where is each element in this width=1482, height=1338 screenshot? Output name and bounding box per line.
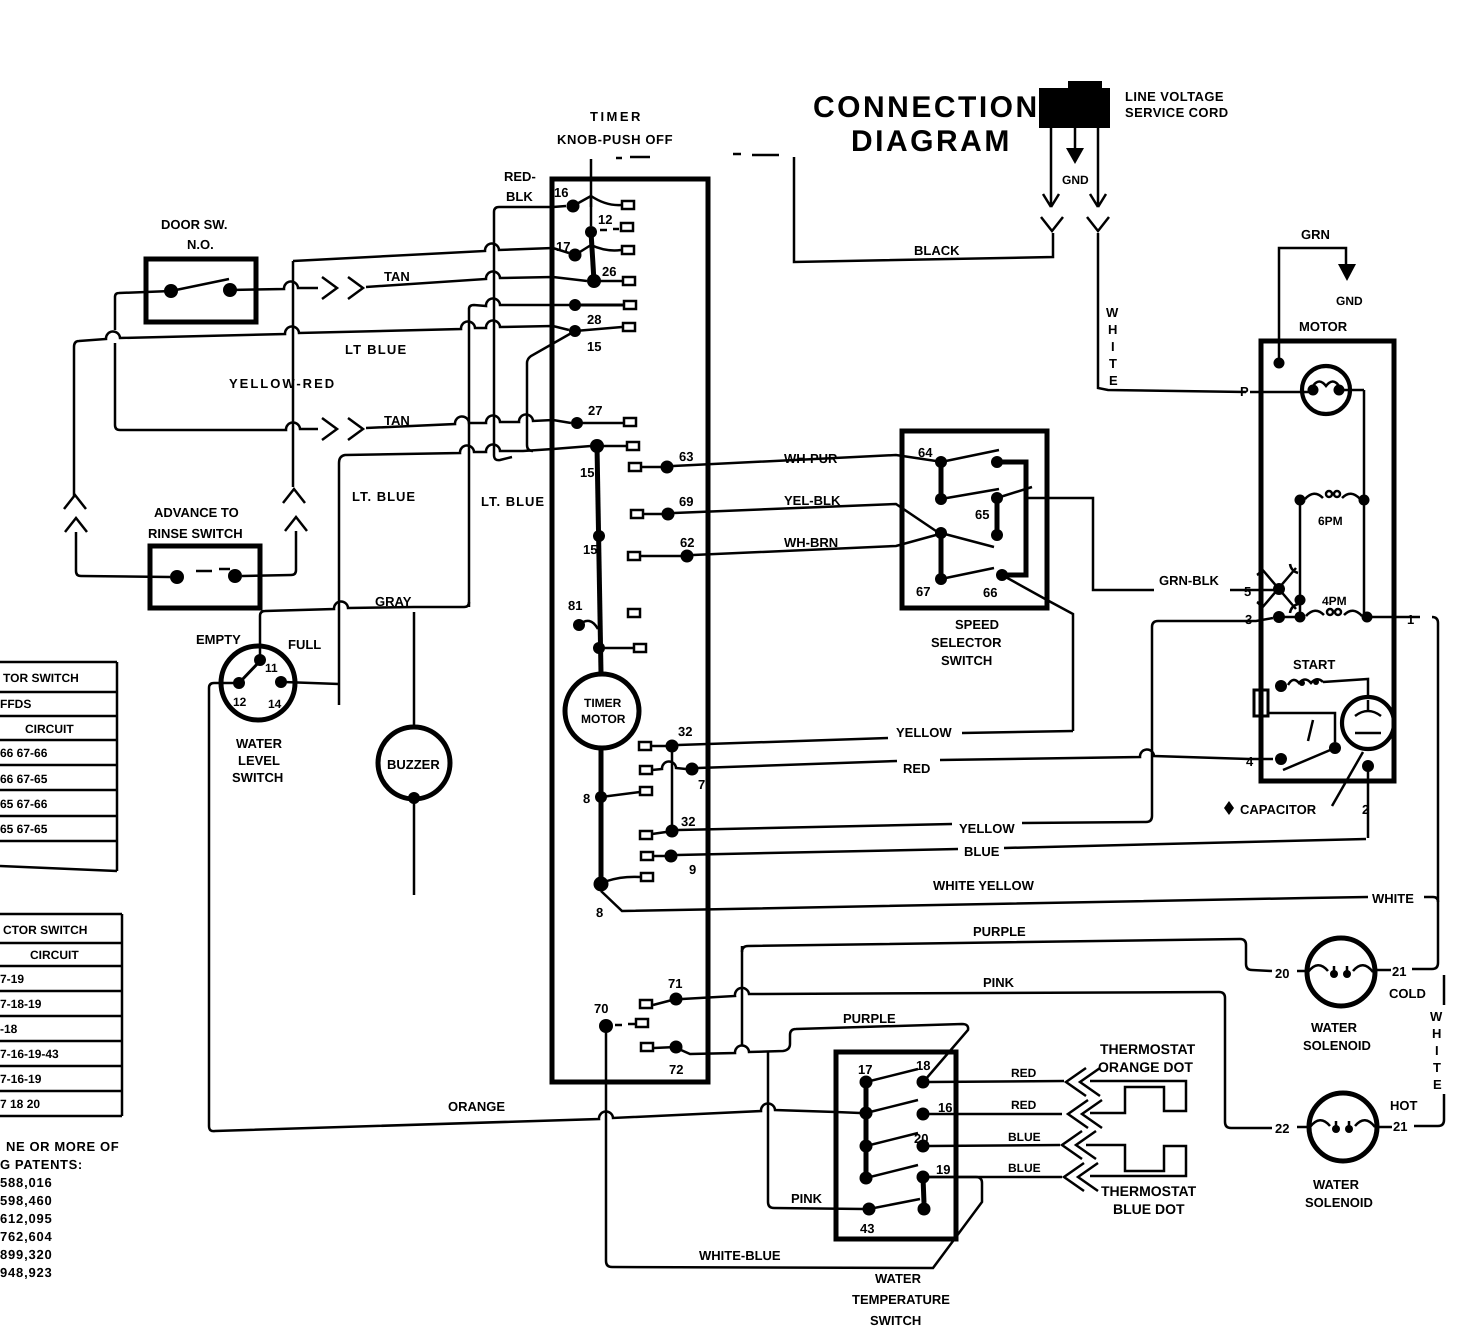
temp switch pin 20: [914, 1131, 930, 1153]
timer pin 32: [651, 724, 692, 753]
rinse switch contacts: [170, 569, 242, 584]
svg-text:17: 17: [858, 1062, 872, 1077]
svg-text:HOT: HOT: [1390, 1098, 1418, 1113]
timer pin 17: [556, 239, 621, 262]
svg-text:WHITE: WHITE: [1372, 891, 1414, 906]
timer lug 70: [636, 1019, 648, 1027]
svg-text:H: H: [1108, 322, 1117, 337]
temp switch pin 17: [858, 1062, 918, 1089]
wire YEL-BLK (timer 69 to speed selector): [674, 493, 936, 531]
timer pin 8: [583, 791, 640, 806]
timer pin 15c: [583, 530, 605, 557]
ground symbol GND (cord): [1062, 128, 1089, 187]
svg-text:66 67-65: 66 67-65: [0, 772, 48, 786]
wire PINK 2 (to temp switch 43): [768, 1052, 864, 1209]
svg-text:BUZZER: BUZZER: [387, 757, 440, 772]
svg-text:PINK: PINK: [983, 975, 1015, 990]
svg-text:63: 63: [679, 449, 693, 464]
wire RED-BLK riser: [494, 169, 566, 460]
wire BLUE thermostat bottom: [929, 1161, 1098, 1191]
svg-text:21: 21: [1392, 964, 1406, 979]
cord prong arrow right: [1087, 128, 1109, 231]
svg-text:ADVANCE TO: ADVANCE TO: [154, 505, 239, 520]
svg-text:1: 1: [1407, 612, 1414, 627]
wire TAN 1 (door switch to timer 26): [230, 269, 587, 299]
ground symbol GND (motor): [1336, 264, 1363, 308]
timer lug 28: [623, 323, 635, 331]
cord prong arrow left: [1041, 128, 1063, 231]
timer pin 32b: [652, 814, 695, 838]
svg-text:12: 12: [598, 212, 612, 227]
svg-text:SERVICE CORD: SERVICE CORD: [1125, 105, 1229, 120]
timer pin 70: [594, 1001, 635, 1033]
svg-text:BLUE DOT: BLUE DOT: [1113, 1201, 1185, 1217]
svg-text:18: 18: [916, 1058, 930, 1073]
svg-text:E: E: [1109, 373, 1118, 388]
water solenoid cold: [1275, 938, 1426, 1053]
svg-text:2: 2: [1362, 802, 1369, 817]
wire 6PM to centrifugal switch: [1299, 500, 1302, 612]
svg-text:FFDS: FFDS: [0, 697, 31, 711]
wire water level 14 stub: [284, 682, 339, 684]
svg-text:70: 70: [594, 1001, 608, 1016]
svg-text:SWITCH: SWITCH: [870, 1313, 921, 1328]
svg-text:7 18 20: 7 18 20: [0, 1097, 40, 1111]
svg-text:TEMPERATURE: TEMPERATURE: [852, 1292, 950, 1307]
temp switch left contacts: [860, 1100, 919, 1185]
timer vertical 32-32: [671, 746, 674, 831]
svg-text:E: E: [1433, 1077, 1442, 1092]
timer pin 72: [654, 1041, 683, 1078]
wire WHITE (cord to motor P): [1098, 233, 1246, 392]
temp switch pin 18: [916, 1058, 930, 1089]
svg-text:YELLOW-RED: YELLOW-RED: [229, 376, 336, 391]
timer lug 15b: [627, 442, 639, 450]
svg-text:RED: RED: [1011, 1066, 1037, 1080]
timer lug 69: [631, 510, 643, 518]
motor 4PM winding row pin 3: [1245, 609, 1394, 627]
svg-text:LT. BLUE: LT. BLUE: [352, 489, 416, 504]
timer lug 81: [628, 609, 640, 617]
buzzer: [378, 612, 450, 895]
svg-text:7-19: 7-19: [0, 972, 24, 986]
speed selector pin 66: [983, 569, 1008, 600]
wire GRN-BLK (speed selector to motor 5): [1026, 498, 1274, 590]
svg-text:8: 8: [583, 791, 590, 806]
timer lug 32b: [640, 831, 652, 839]
timer pin 63: [641, 449, 693, 474]
svg-text:TAN: TAN: [384, 269, 410, 284]
svg-text:15: 15: [583, 542, 597, 557]
svg-text:COLD: COLD: [1389, 986, 1426, 1001]
timer pin 81: [568, 598, 598, 631]
timer lug 63: [629, 463, 641, 471]
svg-text:TIMER: TIMER: [584, 696, 622, 710]
wire BLUE (timer 9 to capacitor 2): [677, 839, 1366, 859]
timer lug 26: [623, 277, 635, 285]
temp switch left bar: [864, 1082, 869, 1178]
svg-text:7-16-19-43: 7-16-19-43: [0, 1047, 59, 1061]
svg-text:3: 3: [1245, 612, 1252, 627]
timer lug 71: [640, 1000, 652, 1008]
timer pin 28: [569, 312, 622, 337]
svg-text:65 67-66: 65 67-66: [0, 797, 48, 811]
svg-text:G PATENTS:: G PATENTS:: [0, 1157, 83, 1172]
title CONNECTION DIAGRAM: [813, 91, 1040, 158]
svg-text:62: 62: [680, 535, 694, 550]
node V1 row 305 corner: [469, 298, 570, 309]
svg-text:21: 21: [1393, 1119, 1407, 1134]
svg-text:66 67-66: 66 67-66: [0, 746, 48, 760]
svg-text:RINSE SWITCH: RINSE SWITCH: [148, 526, 243, 541]
wire PINK (timer 71 to hot solenoid 22): [682, 975, 1272, 1128]
timer pin 69: [643, 494, 693, 521]
svg-text:SWITCH: SWITCH: [232, 770, 283, 785]
svg-text:9: 9: [689, 862, 696, 877]
timer lug 7: [640, 766, 652, 774]
svg-text:NE OR MORE OF: NE OR MORE OF: [6, 1139, 119, 1154]
wire WH-BRN (timer 62 to speed selector): [693, 535, 936, 555]
speed selector pin 64: [918, 445, 999, 468]
svg-text:THERMOSTAT: THERMOSTAT: [1100, 1041, 1196, 1057]
svg-text:SOLENOID: SOLENOID: [1305, 1195, 1373, 1210]
timer bar 12-26: [591, 232, 594, 281]
svg-text:19: 19: [936, 1162, 950, 1177]
svg-text:WH-PUR: WH-PUR: [784, 451, 838, 466]
svg-text:GRAY: GRAY: [375, 594, 412, 609]
timer lug 17: [622, 246, 634, 254]
svg-text:69: 69: [679, 494, 693, 509]
svg-text:26: 26: [602, 264, 616, 279]
wire RED (timer 7 to motor 4): [698, 749, 1249, 776]
timer lug 27: [624, 418, 636, 426]
wire WH-PUR (timer 63 to speed selector 64): [673, 451, 936, 466]
patents note: [0, 1139, 119, 1280]
svg-text:CIRCUIT: CIRCUIT: [25, 722, 74, 736]
svg-text:27: 27: [588, 403, 602, 418]
timer inner bar to motor: [597, 446, 601, 673]
svg-text:YELLOW: YELLOW: [959, 821, 1015, 836]
timer pin 12: [585, 196, 619, 238]
timer node 8 junction: [594, 877, 609, 921]
wire RED thermostat top: [929, 1066, 1186, 1113]
table selector switch 2: [0, 914, 122, 1116]
svg-text:4: 4: [1246, 754, 1254, 769]
svg-text:12: 12: [233, 695, 247, 709]
svg-text:N.O.: N.O.: [187, 237, 214, 252]
svg-text:PINK: PINK: [791, 1191, 823, 1206]
door switch box: [146, 217, 256, 322]
svg-text:65 67-65: 65 67-65: [0, 822, 48, 836]
wire white column between solenoids: [1414, 975, 1444, 1126]
timer lug 16: [622, 201, 634, 209]
svg-text:MOTOR: MOTOR: [581, 712, 626, 726]
speed selector pin 67: [916, 527, 994, 599]
wire PURPLE 2 (timer 72 to temp switch 18): [681, 1011, 968, 1080]
svg-text:WATER: WATER: [875, 1271, 922, 1286]
motor pin 1: [1396, 612, 1438, 897]
svg-text:81: 81: [568, 598, 582, 613]
capacitor C1: [1342, 697, 1394, 749]
svg-text:LT BLUE: LT BLUE: [345, 342, 407, 357]
svg-text:LT. BLUE: LT. BLUE: [481, 494, 545, 509]
svg-text:MOTOR: MOTOR: [1299, 319, 1348, 334]
svg-text:START: START: [1293, 657, 1335, 672]
timer pin 16: [554, 185, 621, 213]
wire WHITE YELLOW (timer 8 to white column): [601, 878, 1438, 969]
svg-text:22: 22: [1275, 1121, 1289, 1136]
svg-text:7: 7: [698, 777, 705, 792]
svg-text:7-18-19: 7-18-19: [0, 997, 42, 1011]
motor pin P: [1240, 384, 1312, 399]
wire RED thermostat bottom: [929, 1098, 1102, 1128]
svg-text:THERMOSTAT: THERMOSTAT: [1101, 1183, 1197, 1199]
svg-text:BLUE: BLUE: [1008, 1130, 1041, 1144]
wire V339 (to water level 14): [338, 463, 341, 705]
wire door switch left to TAN 2: [115, 291, 318, 430]
svg-text:598,460: 598,460: [0, 1193, 53, 1208]
water temperature switch box: [836, 1052, 956, 1328]
timer pin 7: [652, 761, 705, 792]
timer bar below motor: [599, 748, 604, 884]
timer pin 9: [653, 850, 696, 878]
svg-text:762,604: 762,604: [0, 1229, 53, 1244]
timer pin 27: [571, 403, 623, 429]
svg-text:GRN: GRN: [1301, 227, 1330, 242]
motor M1 box: [1261, 319, 1394, 781]
speed selector bar 64: [939, 462, 944, 499]
motor 6PM winding: [1295, 491, 1370, 528]
svg-text:WHITE YELLOW: WHITE YELLOW: [933, 878, 1035, 893]
label thermostat orange dot: [1098, 1041, 1196, 1075]
wire water level 12 to left riser: [209, 683, 239, 1126]
svg-text:LINE VOLTAGE: LINE VOLTAGE: [1125, 89, 1224, 104]
wire LT BLUE 1 (to timer 28a row): [74, 320, 569, 357]
svg-text:WATER: WATER: [236, 736, 283, 751]
svg-text:WHITE-BLUE: WHITE-BLUE: [699, 1248, 781, 1263]
svg-text:TOR SWITCH: TOR SWITCH: [3, 671, 79, 685]
svg-text:15: 15: [580, 465, 594, 480]
svg-text:BLUE: BLUE: [1008, 1161, 1041, 1175]
svg-text:TIMER: TIMER: [590, 109, 643, 124]
node motor top-left: [1274, 358, 1285, 369]
svg-text:YELLOW: YELLOW: [896, 725, 952, 740]
svg-text:YEL-BLK: YEL-BLK: [784, 493, 841, 508]
svg-text:ORANGE: ORANGE: [448, 1099, 505, 1114]
svg-text:BLACK: BLACK: [914, 243, 960, 258]
svg-text:DIAGRAM: DIAGRAM: [851, 125, 1012, 158]
wire TAN 2 (to timer 27): [322, 413, 571, 440]
timer lug 12: [621, 223, 633, 231]
svg-text:GRN-BLK: GRN-BLK: [1159, 573, 1220, 588]
svg-text:I: I: [1435, 1043, 1439, 1058]
svg-text:T: T: [1109, 356, 1117, 371]
svg-text:LEVEL: LEVEL: [238, 753, 280, 768]
timer box: [552, 109, 708, 1082]
speed selector pin 65: [975, 456, 1032, 541]
timer motor: [565, 674, 639, 748]
advance to rinse switch box: [148, 505, 260, 608]
timer lug 8: [640, 787, 652, 795]
svg-text:32: 32: [678, 724, 692, 739]
timer lug 9: [641, 852, 653, 860]
wire PURPLE (to cold solenoid 20): [742, 924, 1272, 1045]
svg-text:DOOR SW.: DOOR SW.: [161, 217, 227, 232]
svg-text:I: I: [1111, 339, 1115, 354]
motor start winding: [1275, 657, 1368, 697]
svg-text:588,016: 588,016: [0, 1175, 53, 1190]
svg-text:PURPLE: PURPLE: [843, 1011, 896, 1026]
motor start switch: [1246, 713, 1341, 770]
wire YELLOW (timer 32 to speed selector 66): [678, 725, 1073, 745]
wire V1 vertical (gray riser): [468, 309, 471, 607]
svg-text:14: 14: [268, 697, 282, 711]
svg-text:5: 5: [1244, 584, 1251, 599]
svg-text:20: 20: [1275, 966, 1289, 981]
wire 66 to yellow column: [1002, 575, 1073, 731]
svg-text:RED: RED: [903, 761, 930, 776]
svg-text:16: 16: [554, 185, 568, 200]
timer lug 28a: [624, 301, 636, 309]
svg-text:WATER: WATER: [1311, 1020, 1358, 1035]
wire GRN (motor to ground): [1279, 227, 1346, 363]
water level switch: [196, 632, 321, 785]
svg-text:32: 32: [681, 814, 695, 829]
svg-text:EMPTY: EMPTY: [196, 632, 241, 647]
svg-text:RED-: RED-: [504, 169, 536, 184]
svg-text:67: 67: [916, 584, 930, 599]
motor centrifugal switch pin 5: [1244, 564, 1347, 613]
wire YELLOW 2 (timer 32b to motor 3): [678, 618, 1273, 836]
svg-text:GND: GND: [1336, 294, 1363, 308]
svg-text:SPEED: SPEED: [955, 617, 999, 632]
timer pin 62: [640, 535, 694, 563]
timer lug 72: [641, 1043, 653, 1051]
timer lug 648: [634, 644, 646, 652]
svg-text:PURPLE: PURPLE: [973, 924, 1026, 939]
timer node bar-lug 648: [593, 642, 633, 654]
svg-text:948,923: 948,923: [0, 1265, 53, 1280]
motor terminal tab: [1254, 690, 1268, 716]
svg-text:WATER: WATER: [1313, 1177, 1360, 1192]
svg-text:65: 65: [975, 507, 989, 522]
wire left arrows to rinse switch: [64, 347, 170, 577]
svg-text:CIRCUIT: CIRCUIT: [30, 948, 79, 962]
svg-text:15: 15: [587, 339, 601, 354]
water solenoid hot: [1275, 1093, 1418, 1210]
timer pin 28a: [569, 299, 623, 311]
svg-text:6PM: 6PM: [1318, 514, 1343, 528]
svg-text:W: W: [1106, 305, 1119, 320]
svg-text:H: H: [1432, 1026, 1441, 1041]
speed selector switch box: [902, 431, 1047, 668]
wire 15 riser V527: [481, 331, 575, 509]
label thermostat blue dot: [1101, 1183, 1197, 1217]
svg-text:28: 28: [587, 312, 601, 327]
svg-text:66: 66: [983, 585, 997, 600]
svg-text:SELECTOR: SELECTOR: [931, 635, 1002, 650]
svg-text:GND: GND: [1062, 173, 1089, 187]
svg-text:-18: -18: [0, 1022, 18, 1036]
temp switch right bar: [918, 1177, 931, 1216]
temp switch pin 16: [917, 1100, 953, 1121]
svg-text:BLUE: BLUE: [964, 844, 1000, 859]
svg-text:P: P: [1240, 384, 1249, 399]
wire GRAY (water level 11 to riser): [260, 594, 469, 660]
svg-text:4PM: 4PM: [1322, 594, 1347, 608]
timer pin 71: [653, 976, 683, 1006]
line voltage service cord plug: [1039, 81, 1229, 128]
wire winding to pin 1 column: [1363, 390, 1366, 617]
wire BLACK (cord to timer knob): [616, 154, 1053, 262]
timer pin 26: [587, 264, 622, 288]
svg-text:CTOR SWITCH: CTOR SWITCH: [3, 923, 87, 937]
door switch contacts: [164, 279, 237, 298]
svg-text:BLK: BLK: [506, 189, 533, 204]
wire to timer 17 with arrows: [242, 243, 569, 576]
svg-text:SOLENOID: SOLENOID: [1303, 1038, 1371, 1053]
svg-text:CONNECTION: CONNECTION: [813, 91, 1040, 124]
svg-text:72: 72: [669, 1062, 683, 1077]
svg-text:RED: RED: [1011, 1098, 1037, 1112]
svg-text:7-16-19: 7-16-19: [0, 1072, 42, 1086]
label capacitor: [1224, 752, 1363, 817]
table selector switch 1: [0, 662, 117, 871]
speed selector right bracket: [997, 462, 1026, 575]
svg-text:899,320: 899,320: [0, 1247, 53, 1262]
svg-text:ORANGE DOT: ORANGE DOT: [1098, 1059, 1193, 1075]
svg-text:11: 11: [265, 661, 278, 675]
svg-text:KNOB-PUSH OFF: KNOB-PUSH OFF: [557, 132, 673, 147]
svg-text:T: T: [1433, 1060, 1441, 1075]
svg-text:8: 8: [596, 905, 603, 920]
svg-text:612,095: 612,095: [0, 1211, 53, 1226]
svg-text:W: W: [1430, 1009, 1443, 1024]
svg-text:CAPACITOR: CAPACITOR: [1240, 802, 1317, 817]
svg-text:WH-BRN: WH-BRN: [784, 535, 838, 550]
motor main winding: [1302, 366, 1364, 414]
svg-text:43: 43: [860, 1221, 874, 1236]
svg-text:71: 71: [668, 976, 682, 991]
timer lug 62: [628, 552, 640, 560]
timer lug 877: [607, 873, 653, 881]
wire BLUE thermostat top: [929, 1130, 1186, 1176]
svg-text:SWITCH: SWITCH: [941, 653, 992, 668]
svg-text:FULL: FULL: [288, 637, 321, 652]
wire LT BLUE 2 (rinse column to timer 15b): [339, 444, 591, 504]
temp switch pin 19: [917, 1162, 951, 1184]
wire WHITE-BLUE (timer 70 to temp switch 19): [606, 1026, 982, 1268]
timer pin 15b: [580, 439, 626, 480]
node capacitor bottom pin 2: [1362, 760, 1374, 838]
temp switch pin 43: [860, 1199, 920, 1236]
timer lug 32: [639, 742, 651, 750]
wire ORANGE (to water temp switch): [209, 1099, 860, 1131]
